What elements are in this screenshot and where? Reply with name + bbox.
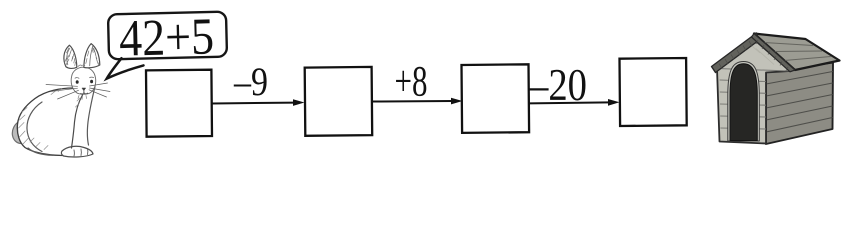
doghouse gable hatch bbox=[728, 43, 774, 65]
doghouse right fascia bbox=[752, 34, 796, 72]
rabbit inner ear lines bbox=[67, 47, 93, 66]
rabbit mouth bbox=[81, 91, 88, 94]
rabbit chin fur bbox=[78, 96, 87, 100]
rabbit body hatching bbox=[19, 89, 81, 150]
doghouse front wall bbox=[717, 40, 791, 144]
arrow 3 bbox=[529, 99, 620, 106]
rabbit tail bbox=[12, 121, 23, 144]
box 4 bbox=[620, 58, 687, 126]
rabbit left ear bbox=[64, 45, 77, 68]
svg-text:+8: +8 bbox=[395, 59, 428, 106]
svg-text:–20: –20 bbox=[528, 60, 587, 110]
svg-text:42+5: 42+5 bbox=[118, 8, 214, 67]
box 2 bbox=[305, 67, 373, 136]
box 3 bbox=[462, 64, 530, 133]
rabbit nose bbox=[82, 88, 86, 91]
doghouse door bbox=[730, 64, 757, 141]
rabbit paw toe lines bbox=[74, 149, 88, 157]
arrow 2 bbox=[372, 98, 463, 105]
rabbit chest bbox=[72, 95, 83, 148]
rabbit front paw bbox=[61, 146, 93, 157]
rabbit bbox=[12, 44, 110, 157]
rabbit hind foot bbox=[28, 148, 53, 155]
rabbit ear hatching bbox=[65, 46, 99, 65]
doghouse gable base line bbox=[717, 69, 790, 72]
doghouse side wall bbox=[766, 63, 833, 145]
rabbit haunch bbox=[27, 102, 42, 152]
doghouse roof plane bbox=[754, 34, 840, 71]
doghouse roof plank lines bbox=[764, 43, 831, 61]
rabbit eyes bbox=[76, 80, 93, 84]
speech bubble bbox=[108, 8, 227, 68]
doghouse left fascia bbox=[712, 33, 759, 73]
doghouse bbox=[712, 33, 840, 144]
doghouse fascia hatching bbox=[719, 40, 788, 71]
rabbit head bbox=[71, 67, 96, 94]
rabbit head top fur bbox=[78, 65, 85, 66]
rabbit right foreleg bbox=[87, 87, 95, 146]
speech bubble tail bbox=[107, 58, 144, 78]
box 1 bbox=[146, 70, 212, 137]
svg-text:–9: –9 bbox=[233, 59, 268, 104]
rabbit whiskers bbox=[46, 83, 110, 99]
rabbit body back outline bbox=[17, 88, 73, 156]
rabbit brows bbox=[75, 77, 94, 78]
doghouse front siding lines bbox=[720, 80, 766, 129]
doghouse door light ring bbox=[728, 62, 760, 142]
rabbit right ear bbox=[84, 44, 100, 68]
doghouse side wall siding lines bbox=[766, 72, 833, 133]
arrow 1 bbox=[212, 99, 305, 106]
